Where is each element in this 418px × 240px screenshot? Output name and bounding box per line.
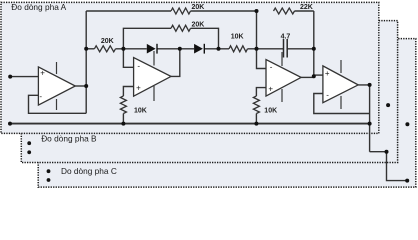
svg-text:10K: 10K	[231, 34, 244, 41]
resistor R4 10K horizontal	[229, 46, 247, 52]
node: junction D2/R4	[217, 47, 221, 51]
wire: R7 to ground bus	[255, 114, 257, 124]
resistor R7 10K vertical	[253, 96, 259, 114]
wire: U3 + input down to R7	[256, 88, 266, 96]
wire: ground bus y=123.6	[10, 123, 370, 125]
wire: U4 output and down to staircase	[358, 85, 369, 152]
node: box B port bullet 2	[27, 150, 31, 154]
node: U3 output junction	[312, 74, 316, 78]
node: box B port bullet 1	[27, 141, 31, 145]
resistor R1 20K horizontal	[94, 46, 115, 52]
resistor R5 22K top right	[274, 8, 295, 14]
subsystem box A (Do dong pha A)	[1, 2, 379, 133]
subsystem box C (Do dong pha C)	[38, 39, 416, 188]
op-amp U3	[266, 52, 301, 102]
node: staircase junction box B	[385, 150, 389, 154]
node: U2 output junction main row	[178, 47, 182, 51]
wire: C1 right plate to node	[287, 48, 314, 50]
node: U4 output junction	[368, 83, 372, 87]
wire: U1 feedback loop	[29, 95, 87, 113]
wire: U4 feedback loop	[314, 94, 370, 114]
svg-text:-: -	[270, 63, 273, 72]
svg-text:10K: 10K	[264, 108, 277, 115]
page background	[0, 0, 418, 191]
wire: U2 output riser to main row	[171, 49, 180, 77]
node: box C output pin dot	[405, 122, 409, 126]
svg-text:-: -	[137, 62, 140, 71]
diode D2	[194, 44, 204, 54]
resistor R2 20K top row	[171, 8, 191, 14]
node: box B output pin dot	[386, 103, 390, 107]
op-amp U2	[134, 51, 171, 101]
wire: output staircase to boxes B and C	[370, 152, 408, 181]
node: input terminal A	[8, 75, 12, 79]
subsystem box B (Do dong pha B)	[21, 21, 397, 163]
svg-text:-: -	[39, 92, 42, 101]
wire: main row R4 to C1 left plate	[248, 48, 284, 50]
wire: input A to U1 +	[10, 76, 38, 78]
wire: node to U4 + input	[314, 74, 323, 76]
op-amp U1	[38, 62, 75, 110]
svg-text:Đo dòng pha B: Đo dòng pha B	[41, 134, 97, 144]
node: staircase end box C	[405, 179, 409, 183]
wire: column x=313.8 from top row to U3 output	[313, 11, 315, 76]
wire: riser x=256.5 top row to U3 - input	[257, 11, 267, 69]
resistor R6 10K vertical	[120, 96, 126, 114]
node: junction bus/main row	[84, 47, 88, 51]
wire: second row y=28.3 right of R3	[191, 28, 219, 49]
wire: vertical node bus x=86.2	[85, 11, 87, 113]
wire: top row y=11 right of R5 22K	[295, 10, 314, 12]
svg-text:10K: 10K	[134, 107, 147, 114]
wire: second row y=28.3 riser and left of R3	[123, 28, 171, 49]
wire: main row y=48.8 node to R1	[86, 48, 94, 50]
node: junction C1 right/column	[312, 47, 316, 51]
svg-text:20K: 20K	[101, 38, 114, 45]
wire: main row D1 to D2	[157, 48, 194, 50]
node: R7 bus junction	[254, 122, 258, 126]
wire: U2 - input from main row	[123, 49, 133, 68]
wire: top row y=11 right of R2	[191, 10, 257, 12]
wire: main row R1 to D1	[116, 48, 147, 50]
svg-text:+: +	[136, 83, 141, 92]
svg-text:4.7: 4.7	[281, 33, 291, 40]
svg-text:+: +	[40, 69, 45, 78]
svg-text:Do dòng pha C: Do dòng pha C	[61, 166, 117, 176]
wire: U1 output to bus	[75, 85, 86, 87]
svg-text:+: +	[325, 69, 330, 78]
node: junction R1/D1	[121, 47, 125, 51]
wire: main row D2 to R4	[204, 48, 229, 50]
node: bus left terminal	[8, 122, 12, 126]
node: junction R4/C1/riser	[255, 47, 259, 51]
node: bus right end junction	[368, 122, 372, 126]
svg-text:Đo dòng pha A: Đo dòng pha A	[11, 2, 66, 12]
wire: U3 output to node	[301, 76, 314, 78]
diode D1	[147, 44, 157, 54]
node: top row junction x=256.5	[255, 9, 259, 13]
node: box C port bullet 2	[47, 178, 51, 182]
node: box C port bullet 1	[47, 169, 51, 173]
op-amp U4	[323, 60, 358, 109]
capacitor C1 plates	[284, 39, 288, 58]
svg-text:22K: 22K	[300, 4, 313, 11]
svg-text:20K: 20K	[192, 22, 205, 29]
wire: top row y=11 left of R2	[86, 10, 171, 12]
svg-text:-: -	[326, 91, 329, 100]
resistor R3 20K second row	[171, 25, 191, 31]
wire: U2 + input down to R6	[123, 87, 133, 97]
svg-text:20K: 20K	[192, 4, 205, 11]
wire: R6 to ground bus	[122, 114, 124, 124]
node: U1 output junction	[84, 84, 88, 88]
node: R6 bus junction	[121, 122, 125, 126]
svg-text:+: +	[268, 84, 273, 93]
